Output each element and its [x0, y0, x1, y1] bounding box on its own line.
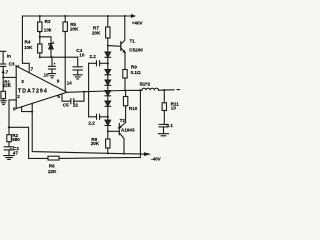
svg-text:10: 10: [44, 73, 50, 78]
ground: [4, 156, 14, 160]
diode D1: [105, 52, 111, 57]
svg-text:6: 6: [57, 94, 60, 99]
svg-text:1 1: 1 1: [15, 64, 20, 68]
resistor R6: [48, 156, 59, 160]
svg-text:2.2: 2.2: [89, 54, 96, 59]
capacitor C8 2.2 lower: [89, 116, 97, 118]
capacitor C9 0.1: [159, 123, 168, 125]
svg-text:22K: 22K: [3, 83, 12, 88]
resistor R4: [39, 37, 41, 44]
resistor R11: [163, 90, 165, 103]
svg-text:0.1Ω: 0.1Ω: [131, 70, 141, 75]
svg-text:C3: C3: [9, 61, 15, 66]
svg-text:10k: 10k: [44, 27, 52, 32]
svg-text:10: 10: [79, 53, 85, 58]
ground: [49, 74, 56, 78]
capacitor C6 mute 10u: [51, 57, 53, 66]
svg-text:10: 10: [171, 105, 177, 110]
ground: [73, 75, 82, 79]
svg-text:5Ω*2: 5Ω*2: [140, 81, 151, 86]
svg-text:R4: R4: [25, 40, 31, 45]
node feedback takeoff junction: [139, 89, 141, 91]
wire output line: [67, 90, 125, 92]
svg-text:C5: C5: [63, 102, 69, 107]
node riser crossing junction: [88, 91, 90, 93]
wire R3 bottom to zener top: [40, 37, 51, 44]
transistor Q2 T2 A1943: [108, 130, 120, 132]
node junction T1 collector on rail: [124, 15, 126, 17]
node C5 riser junction: [83, 91, 85, 93]
resistor R8: [107, 131, 109, 139]
node -40V arrow: [145, 153, 150, 155]
svg-text:8: 8: [13, 106, 16, 111]
resistor R9: [123, 70, 127, 79]
wire pin 2 feedback: [9, 100, 16, 127]
node R3 bottom junction: [39, 36, 41, 38]
svg-text:22K: 22K: [48, 169, 57, 174]
svg-text:+: +: [10, 147, 12, 151]
ground: [159, 134, 169, 136]
node input terminal: [1, 51, 6, 64]
capacitor C5: [70, 99, 72, 104]
svg-text:9: 9: [57, 78, 60, 83]
resistor R7: [107, 16, 109, 27]
svg-text:7: 7: [31, 66, 34, 71]
svg-text:4.7: 4.7: [2, 69, 9, 74]
wire cap riser: [88, 63, 90, 117]
svg-text:R9: R9: [131, 65, 137, 70]
svg-text:T1: T1: [130, 39, 136, 44]
diode D5 zener: [49, 42, 53, 45]
op-amp U1 TDA7294 triangle: [16, 66, 67, 109]
svg-text:20K: 20K: [70, 27, 79, 32]
svg-text:20K: 20K: [92, 30, 101, 35]
svg-text:680: 680: [12, 137, 20, 142]
svg-text:0.1: 0.1: [167, 123, 174, 128]
wire top +40V rail: [22, 15, 130, 17]
node junction R5 on rail: [64, 15, 66, 17]
wire to pin 3: [3, 76, 16, 78]
svg-text:T2: T2: [120, 118, 126, 123]
transistor Q1 T1 C5200: [108, 45, 121, 48]
svg-text:R10: R10: [129, 106, 138, 111]
svg-text:22: 22: [73, 103, 79, 108]
svg-text:3: 3: [21, 79, 24, 84]
resistor R2: [8, 127, 10, 134]
capacitor C4 stby 10u: [77, 57, 79, 67]
ground: [1, 101, 7, 105]
svg-text:R3: R3: [45, 19, 51, 24]
svg-text:47: 47: [13, 151, 19, 156]
svg-text:R6: R6: [49, 164, 55, 169]
resistor R3: [39, 16, 41, 22]
wire output to coil: [125, 89, 142, 91]
diode chain D1-D6: [107, 46, 109, 132]
capacitor C2: [4, 146, 13, 148]
inductor L1: [142, 88, 159, 90]
svg-text:20K: 20K: [91, 141, 100, 146]
diode D5b: [105, 101, 111, 106]
diode D3: [105, 80, 111, 85]
svg-text:C5200: C5200: [129, 48, 143, 53]
diode D6: [105, 120, 111, 125]
capacitor C3 input: [1, 63, 6, 65]
resistor R5: [64, 16, 66, 22]
node input junction: [2, 76, 4, 78]
svg-text:14: 14: [67, 80, 73, 85]
svg-text:2.2: 2.2: [88, 120, 95, 125]
wire pin2 node to R6 line: [9, 127, 48, 158]
node top rail arrow: [130, 15, 135, 17]
wire mute node horizontal: [40, 56, 78, 58]
resistor R1: [1, 91, 6, 98]
node R9 emitter junction: [124, 89, 126, 91]
diode D2: [105, 70, 111, 75]
svg-text:+40V: +40V: [132, 20, 144, 25]
svg-text:in: in: [7, 54, 11, 59]
wire feedback R6 line: [59, 90, 140, 158]
wire pin 6 bootstrap: [62, 94, 71, 101]
svg-text:+: +: [54, 62, 56, 66]
wire pin9 stby line: [64, 57, 66, 90]
wire pin 8 to -V rail: [22, 107, 33, 112]
diode D4: [105, 91, 111, 96]
node junction R7 on rail: [107, 15, 109, 17]
svg-text:TDA7294: TDA7294: [18, 89, 48, 95]
node junction R3 on rail: [39, 15, 41, 17]
svg-text:10K: 10K: [24, 45, 33, 50]
svg-text:-40V: -40V: [151, 156, 162, 161]
svg-text:A1943: A1943: [121, 127, 135, 132]
wire left border from rail: [22, 16, 29, 72]
capacitor C7 2.2 upper: [89, 62, 97, 64]
resistor R10: [123, 97, 127, 106]
